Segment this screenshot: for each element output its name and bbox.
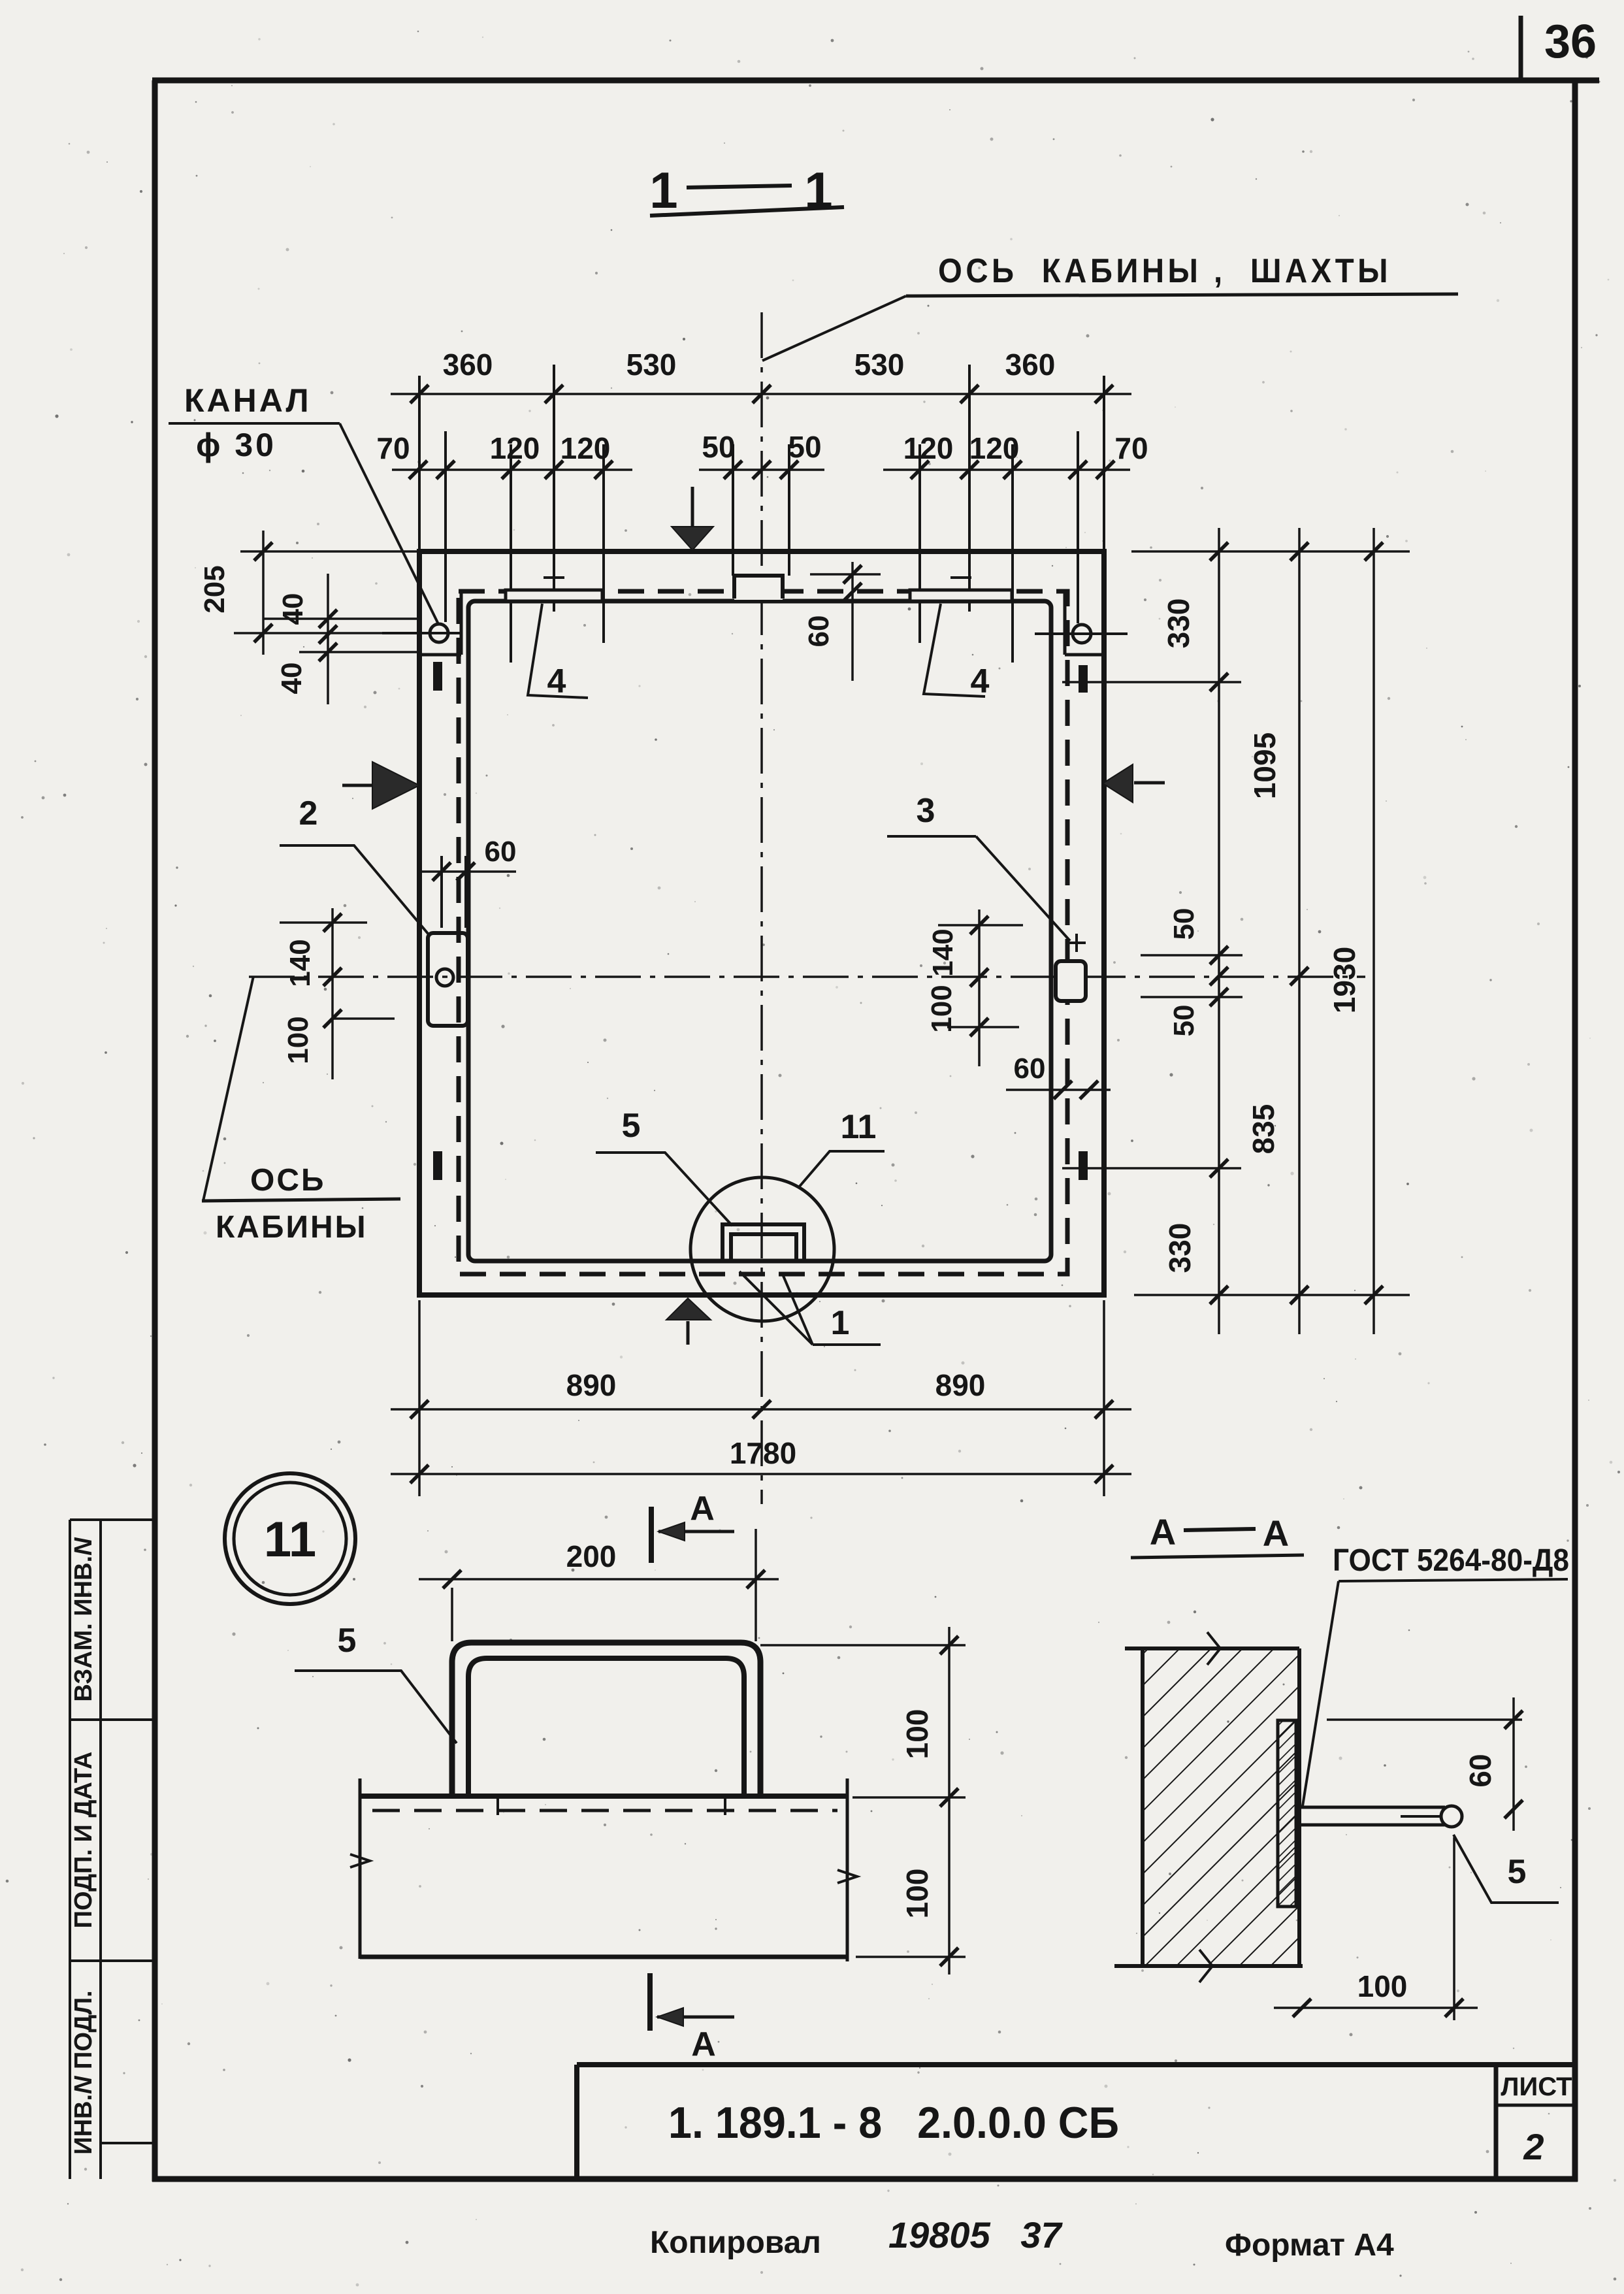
svg-text:1930: 1930 (1327, 947, 1361, 1013)
svg-text:40: 40 (276, 663, 308, 695)
filing strip divider mid1 (70, 1718, 155, 1721)
filing strip divider mid2 (70, 1959, 155, 1962)
right dim line 1095-835 (1298, 528, 1301, 1334)
horizontal axis of cab (249, 975, 1365, 978)
svg-text:ВЗАМ. ИНВ.N: ВЗАМ. ИНВ.N (70, 1537, 97, 1702)
svg-text:5: 5 (1508, 1853, 1527, 1891)
svg-text:70: 70 (376, 431, 410, 465)
section title underline (1131, 1555, 1304, 1558)
anchor bar top right (1079, 665, 1088, 693)
svg-text:19805 37: 19805 37 (888, 2214, 1064, 2255)
rod rounded end (1441, 1806, 1462, 1827)
svg-text:330: 330 (1163, 1223, 1197, 1273)
bottom dim line 890-890 (391, 1408, 1131, 1411)
bottom extension left (418, 1300, 421, 1496)
filing strip inner line (99, 1520, 102, 2179)
dim 60 left side (418, 870, 516, 873)
section arrow left (342, 784, 374, 787)
wall top edge (1125, 1647, 1299, 1650)
right dims extension bottom (1134, 1294, 1410, 1296)
plate edge tick right (724, 1796, 726, 1815)
slab inner opening outline (468, 601, 1051, 1261)
slab elevation dashed line (372, 1809, 837, 1812)
svg-text:11: 11 (841, 1108, 877, 1146)
svg-text:360: 360 (1005, 348, 1056, 382)
svg-text:11: 11 (264, 1512, 316, 1567)
kanal leader horizontal (169, 422, 340, 425)
bottom dim line 1780 (391, 1473, 1131, 1475)
svg-text:1. 189.1 - 8 2.0.0.0 СБ: 1. 189.1 - 8 2.0.0.0 СБ (668, 2098, 1119, 2148)
top dim line2 right 120-120-70 (883, 468, 1130, 471)
right dims extension top (1131, 550, 1410, 553)
slab outer outline (419, 551, 1104, 1295)
svg-text:А: А (690, 1490, 715, 1528)
svg-text:50: 50 (702, 430, 735, 464)
plate2 hole (436, 969, 453, 986)
svg-text:А: А (1263, 1513, 1289, 1554)
svg-text:1: 1 (649, 161, 677, 219)
right dims extension 50 lower (1141, 996, 1242, 998)
frame top border (152, 78, 1599, 84)
svg-text:5: 5 (622, 1107, 641, 1145)
slab elevation right edge (846, 1778, 849, 1961)
handle elevation inner (468, 1658, 744, 1795)
svg-text:1780: 1780 (730, 1436, 796, 1470)
svg-text:4: 4 (547, 663, 566, 700)
svg-text:100: 100 (900, 1869, 934, 1919)
right dims extension 50 upper (1141, 954, 1242, 957)
top dim line 360-530-530-360 (391, 393, 1131, 395)
load arrow bottom (687, 1321, 690, 1345)
left break mark (350, 1854, 370, 1867)
dim 140-100 right (978, 909, 981, 1066)
list cell divider (1496, 2104, 1575, 2107)
extension 40 lower (299, 651, 418, 653)
plate3 center mark (1067, 942, 1086, 944)
svg-text:205: 205 (199, 565, 231, 613)
anchor bar bottom left (433, 1151, 442, 1180)
svg-text:200: 200 (566, 1539, 617, 1573)
handle in plan outer (723, 1224, 804, 1261)
svg-text:А: А (1150, 1511, 1176, 1552)
rod axis line (1401, 1815, 1442, 1818)
dim 40 40 line (327, 574, 329, 704)
handle in plan inner (731, 1234, 796, 1261)
svg-text:100: 100 (1357, 1969, 1408, 2003)
wall section hatched (1143, 1648, 1299, 1966)
svg-text:60: 60 (803, 615, 835, 647)
svg-text:ГОСТ 5264-80-Д8: ГОСТ 5264-80-Д8 (1333, 1543, 1569, 1578)
section mark A bottom (647, 1973, 653, 2031)
extension 100 bottom (856, 1956, 966, 1958)
detail badge circle 11 (225, 1473, 355, 1604)
svg-text:70: 70 (1114, 431, 1148, 465)
dim 205 line (262, 531, 265, 655)
embedded plate section (1278, 1720, 1296, 1907)
frame right border (1572, 80, 1578, 2182)
dim 60 top center (851, 562, 854, 681)
extension 200 right (755, 1529, 757, 1641)
svg-text:КАНАЛ: КАНАЛ (184, 382, 312, 419)
svg-text:1095: 1095 (1248, 732, 1282, 799)
svg-text:1: 1 (831, 1304, 850, 1342)
filing strip outer line (69, 1520, 71, 2179)
svg-text:2: 2 (1523, 2126, 1544, 2167)
frame left border (152, 80, 158, 2182)
anchor bar top left (433, 662, 442, 691)
svg-text:360: 360 (443, 348, 493, 382)
plate4 right center mark (950, 576, 971, 579)
title block top line (577, 2062, 1575, 2067)
svg-text:ИНВ.N ПОДЛ.: ИНВ.N ПОДЛ. (70, 1990, 97, 2154)
slab elevation left edge (359, 1778, 362, 1959)
detail circle 11 (690, 1177, 834, 1321)
embedded plate 4 left (506, 590, 602, 601)
slab elevation top line (360, 1794, 847, 1799)
extension at hole level (234, 632, 389, 634)
load arrow top (691, 487, 694, 527)
dim 60 section (1327, 1718, 1522, 1721)
os kabiny underline (202, 1199, 400, 1201)
gost underline (1339, 1579, 1568, 1581)
svg-text:60: 60 (1014, 1053, 1046, 1085)
svg-text:890: 890 (935, 1368, 986, 1402)
svg-text:140: 140 (284, 939, 316, 987)
embedded plate 4 right (910, 590, 1012, 601)
dim 140-100 left (331, 908, 334, 1079)
plate edge tick left (496, 1796, 499, 1815)
axis label underline (906, 294, 1458, 296)
wall break bottom (1199, 1950, 1212, 1982)
embedded plate 3 right side (1056, 961, 1086, 1001)
svg-text:100: 100 (282, 1016, 314, 1064)
top dim line2 left 70-120-120 (392, 468, 632, 471)
slab top extension left (240, 550, 419, 553)
title block left line (574, 2065, 579, 2179)
svg-text:50: 50 (788, 430, 821, 464)
extension 100 mid (853, 1796, 966, 1799)
svg-text:ОСЬ: ОСЬ (250, 1163, 326, 1198)
svg-text:50: 50 (1168, 908, 1200, 940)
svg-text:140: 140 (927, 928, 959, 976)
section arrow right (1134, 781, 1165, 785)
wall right edge (1297, 1648, 1301, 1966)
svg-text:100: 100 (900, 1709, 934, 1760)
filing strip divider small (101, 2142, 155, 2144)
axis label leader (762, 296, 906, 361)
svg-text:36: 36 (1544, 16, 1597, 68)
svg-text:КАБИНЫ: КАБИНЫ (216, 1210, 368, 1245)
right dims extension 330 top (1062, 681, 1241, 683)
embedded plate 2 left side (428, 933, 468, 1026)
svg-text:А: А (691, 2025, 716, 2063)
wall break top (1207, 1632, 1220, 1665)
svg-text:ϕ 30: ϕ 30 (196, 427, 276, 463)
right dim line 1930 (1372, 528, 1375, 1334)
handle elevation outer (452, 1643, 760, 1795)
top notch (734, 576, 783, 600)
extension 200 left (451, 1588, 453, 1641)
svg-text:530: 530 (626, 348, 677, 382)
canal hole left circle (430, 624, 448, 642)
svg-text:ЛИСТ: ЛИСТ (1501, 2073, 1572, 2101)
canal hole right lines (1035, 632, 1128, 635)
right dims extension 330 bottom (1062, 1167, 1241, 1170)
bottom extension right (1103, 1300, 1105, 1496)
wall left edge (1141, 1648, 1145, 1966)
plate4 left center mark (544, 576, 564, 579)
extension 100 top (760, 1644, 966, 1647)
svg-text:530: 530 (854, 348, 905, 382)
title block list cell line (1494, 2065, 1499, 2179)
slab elevation bottom line (360, 1955, 847, 1959)
os kabiny leader (203, 976, 253, 1201)
dim 100 section (1453, 1837, 1455, 2020)
gost leader (1303, 1581, 1339, 1806)
section mark A top (649, 1507, 654, 1563)
extension lines from top dims (418, 376, 421, 551)
dim 200 line (419, 1578, 779, 1581)
svg-text:Формат А4: Формат А4 (1225, 2228, 1394, 2263)
right break mark (837, 1870, 857, 1883)
right dim line 330-330 (1218, 528, 1220, 1334)
svg-text:120: 120 (903, 431, 954, 465)
svg-text:835: 835 (1246, 1104, 1280, 1155)
svg-text:100: 100 (926, 985, 958, 1032)
dim 60 right side (1006, 1089, 1111, 1091)
handle rod section (1296, 1806, 1445, 1809)
svg-text:5: 5 (338, 1622, 357, 1660)
view title underline (650, 207, 844, 216)
svg-text:330: 330 (1161, 598, 1195, 649)
kanal leader diagonal (340, 423, 439, 625)
svg-text:3: 3 (917, 792, 935, 830)
slab contour dashed (459, 591, 1067, 1274)
svg-text:ОСЬ КАБИНЫ , ШАХТЫ: ОСЬ КАБИНЫ , ШАХТЫ (938, 252, 1391, 290)
canal hole right circle (1073, 625, 1091, 643)
svg-text:ПОДП. И ДАТА: ПОДП. И ДАТА (70, 1752, 97, 1929)
svg-text:40: 40 (277, 593, 309, 625)
frame bottom border (152, 2176, 1578, 2182)
svg-text:Копировал: Копировал (650, 2225, 821, 2260)
extension 40 upper (263, 617, 419, 620)
page number tick (1519, 16, 1523, 80)
filing strip divider top (70, 1518, 155, 1521)
svg-text:50: 50 (1168, 1005, 1200, 1037)
dim 100-100 line (948, 1627, 950, 1974)
svg-text:60: 60 (1463, 1754, 1497, 1787)
svg-text:2: 2 (299, 795, 318, 832)
top dim line2 center 50-50 (699, 468, 824, 471)
svg-text:890: 890 (566, 1368, 617, 1402)
anchor bar bottom right (1079, 1151, 1088, 1180)
canal hole left lines (382, 632, 461, 634)
vertical axis of cab and shaft (760, 312, 763, 1504)
wall bottom edge (1114, 1964, 1303, 1968)
svg-text:60: 60 (485, 836, 517, 868)
svg-text:120: 120 (490, 431, 540, 465)
